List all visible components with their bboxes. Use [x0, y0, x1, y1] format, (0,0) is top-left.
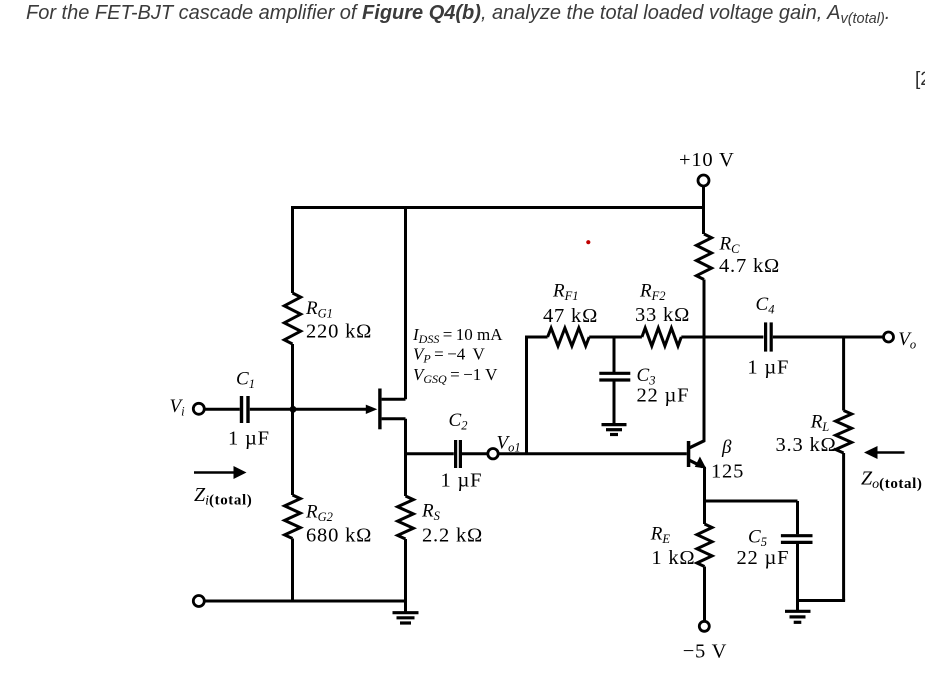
- svg-text:VP = −4 V: VP = −4 V: [413, 345, 486, 366]
- wire RF2 to C4: [681, 336, 763, 339]
- JFET source stub: [382, 417, 406, 420]
- svg-text:+10 V: +10 V: [679, 149, 735, 171]
- output terminal circle Vo: [884, 332, 894, 342]
- svg-text:22 µF: 22 µF: [737, 547, 790, 569]
- wire RS bottom: [404, 539, 407, 613]
- svg-text:RS: RS: [421, 501, 441, 524]
- svg-text:Zo(total): Zo(total): [861, 468, 922, 493]
- capacitor C2: [456, 440, 461, 468]
- svg-text:RC: RC: [719, 234, 741, 257]
- svg-text:C2: C2: [449, 410, 468, 433]
- wire RF1 to RF2: [589, 336, 642, 339]
- svg-text:Vo: Vo: [898, 329, 916, 352]
- svg-text:Zi(total): Zi(total): [194, 484, 252, 509]
- svg-text:1 µF: 1 µF: [441, 470, 483, 492]
- supply terminal circle -5 V: [699, 621, 709, 631]
- svg-text:RL: RL: [810, 412, 830, 435]
- wire C1 to JFET gate with arrow: [250, 408, 366, 411]
- wire source node to C2: [406, 452, 454, 455]
- wire RC bottom to BJT collector: [703, 280, 706, 442]
- wire emitter down: [703, 467, 706, 524]
- input terminal circle Vi: [193, 403, 204, 414]
- svg-text:VGSQ = −1 V: VGSQ = −1 V: [413, 365, 498, 386]
- svg-text:1 kΩ: 1 kΩ: [651, 547, 695, 569]
- wire C5 bottom: [796, 542, 799, 611]
- wire Vo1 to BJT base: [498, 452, 686, 455]
- wire Vi to C1: [205, 408, 240, 411]
- svg-text:47 kΩ: 47 kΩ: [543, 305, 598, 327]
- wire +10 V to RC: [702, 186, 705, 234]
- resistor RL: [836, 411, 852, 454]
- svg-text:C5: C5: [748, 527, 767, 550]
- wire JFET drain to top rail: [404, 208, 407, 400]
- svg-text:IDSS = 10 mA: IDSS = 10 mA: [412, 325, 503, 346]
- terminal circle Vo1: [488, 449, 498, 459]
- wire RG1 bottom to gate node: [291, 344, 294, 409]
- wire RL top: [842, 337, 845, 411]
- capacitor C3 stub top: [613, 337, 616, 373]
- capacitor C3: [599, 373, 630, 380]
- resistor RS: [398, 496, 414, 539]
- wire RG1 top from rail: [291, 206, 294, 293]
- wire C5 top: [796, 501, 799, 534]
- label Zo arrow: [864, 446, 905, 459]
- title text: [26, 2, 890, 27]
- svg-text:−5 V: −5 V: [683, 641, 728, 663]
- svg-text:RG2: RG2: [305, 502, 333, 525]
- svg-text:220 kΩ: 220 kΩ: [306, 321, 372, 343]
- red dot annotation: [586, 240, 590, 244]
- wire bottom rail: [204, 600, 406, 603]
- svg-text:4.7 kΩ: 4.7 kΩ: [719, 255, 780, 277]
- JFET Q1 gate bar: [378, 389, 381, 430]
- resistor RF2: [642, 328, 681, 346]
- resistor RC: [696, 234, 711, 280]
- marks bracket [2... clipped at page edge: [915, 69, 925, 91]
- svg-text:C4: C4: [756, 294, 775, 317]
- wire RE bottom: [703, 567, 706, 622]
- wire RG2 bottom: [291, 539, 294, 602]
- wire RG2 top from gate node: [291, 409, 294, 495]
- JFET drain stub: [382, 398, 406, 401]
- wire RL bottom: [842, 453, 845, 601]
- label Zi arrow: [194, 466, 247, 479]
- svg-text:C1: C1: [236, 369, 255, 392]
- resistor RG2: [285, 495, 301, 539]
- svg-text:RE: RE: [650, 524, 671, 547]
- wire loop top to RF1: [525, 336, 548, 339]
- ground below RS: [393, 613, 419, 623]
- supply terminal circle +10 V: [698, 175, 709, 186]
- svg-text:RF2: RF2: [639, 281, 666, 304]
- svg-text:RF1: RF1: [552, 281, 579, 304]
- wire C4 to Vo terminal: [773, 336, 884, 339]
- resistor RF1: [548, 328, 590, 346]
- wire feedback loop vertical: [525, 337, 528, 454]
- svg-text:Vo1: Vo1: [497, 433, 521, 455]
- svg-text:β: β: [721, 437, 732, 458]
- svg-text:33 kΩ: 33 kΩ: [635, 304, 690, 326]
- terminal circle bottom left: [193, 596, 204, 607]
- wire C2 to Vo1 terminal: [462, 452, 488, 455]
- svg-text:Vi: Vi: [170, 396, 186, 419]
- capacitor C4: [766, 322, 772, 351]
- arrowhead at JFET gate: [366, 405, 378, 414]
- ground below C3: [602, 425, 627, 435]
- transistor Q2 collector diagonal: [690, 440, 705, 447]
- junction dot gate node: [290, 406, 297, 413]
- resistor RE: [697, 524, 712, 567]
- wire emitter to C5: [705, 500, 798, 503]
- svg-text:1 µF: 1 µF: [228, 428, 270, 450]
- resistor RG1: [284, 293, 300, 344]
- wire JFET source down: [404, 419, 407, 496]
- wire top supply rail: [291, 206, 704, 209]
- svg-text:3.3 kΩ: 3.3 kΩ: [776, 434, 837, 456]
- svg-text:680 kΩ: 680 kΩ: [306, 525, 372, 547]
- svg-text:1 µF: 1 µF: [747, 357, 789, 379]
- capacitor C5: [781, 536, 813, 543]
- wire bottom right: [798, 599, 846, 602]
- capacitor C3 stub bottom: [613, 380, 616, 425]
- svg-text:125: 125: [711, 461, 744, 483]
- ground below C5: [785, 611, 811, 622]
- capacitor C1: [242, 396, 249, 423]
- svg-text:22 µF: 22 µF: [637, 385, 690, 407]
- svg-text:RG1: RG1: [305, 298, 333, 321]
- transistor Q2 base bar: [687, 441, 691, 467]
- transistor Q2 emitter diagonal: [690, 460, 703, 467]
- svg-text:2.2 kΩ: 2.2 kΩ: [422, 525, 483, 547]
- transistor Q2 emitter arrowhead: [695, 457, 707, 469]
